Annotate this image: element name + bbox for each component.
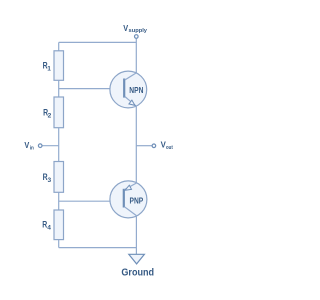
label Vin [24,141,34,151]
Q2 base bar [123,189,125,208]
wire Vin [42,145,58,147]
Q1 emitter arrowhead [129,100,135,105]
Q1 collector line [125,73,137,80]
resistor R4 [54,210,64,240]
bottom rail wire [59,247,137,249]
wire PNP collector to ground [135,216,137,255]
svg-text:in: in [30,146,35,152]
resistor R3 [54,162,64,193]
Vsupply terminal [135,35,139,39]
svg-text:PNP: PNP [130,196,144,206]
wire R1 to R2 [58,80,60,97]
wire R4 to bottom rail [58,240,60,248]
wire PNP base [59,200,124,202]
wire R2 to R3 [58,128,60,162]
Vin terminal [38,144,42,148]
transistor Q2 PNP circle [110,181,147,218]
svg-text:4: 4 [47,225,51,232]
label R1 [43,61,52,73]
wire Vsupply drop to NPN collector [135,39,137,73]
wire R3 to R4 [58,192,60,210]
ground symbol [129,254,145,264]
wire NPN base [59,88,124,90]
wire Vout [136,145,152,147]
label Vout [161,141,173,151]
Vout terminal [152,144,156,148]
label R3 [43,172,52,184]
resistor R2 [54,97,64,128]
label R4 [42,220,51,232]
Q2 emitter line [125,183,137,190]
svg-text:2: 2 [48,112,52,119]
svg-text:supply: supply [129,28,148,34]
svg-text:NPN: NPN [129,85,143,95]
wire NPN emitter to PNP emitter (Vout node) [135,106,137,183]
svg-text:out: out [166,145,173,151]
Q1 emitter line [125,97,137,107]
svg-text:1: 1 [47,66,51,73]
top rail wire [59,41,137,43]
svg-text:3: 3 [48,177,52,184]
label Vsupply [123,24,148,34]
svg-text:Ground: Ground [121,268,154,279]
resistor R1 [54,51,64,81]
transistor Q1 NPN circle [110,71,147,108]
wire top rail to R1 [58,42,60,50]
Q1 base bar [123,79,125,98]
Q2 emitter arrowhead [125,185,132,190]
Q2 collector line [125,207,137,216]
label R2 [43,107,52,119]
